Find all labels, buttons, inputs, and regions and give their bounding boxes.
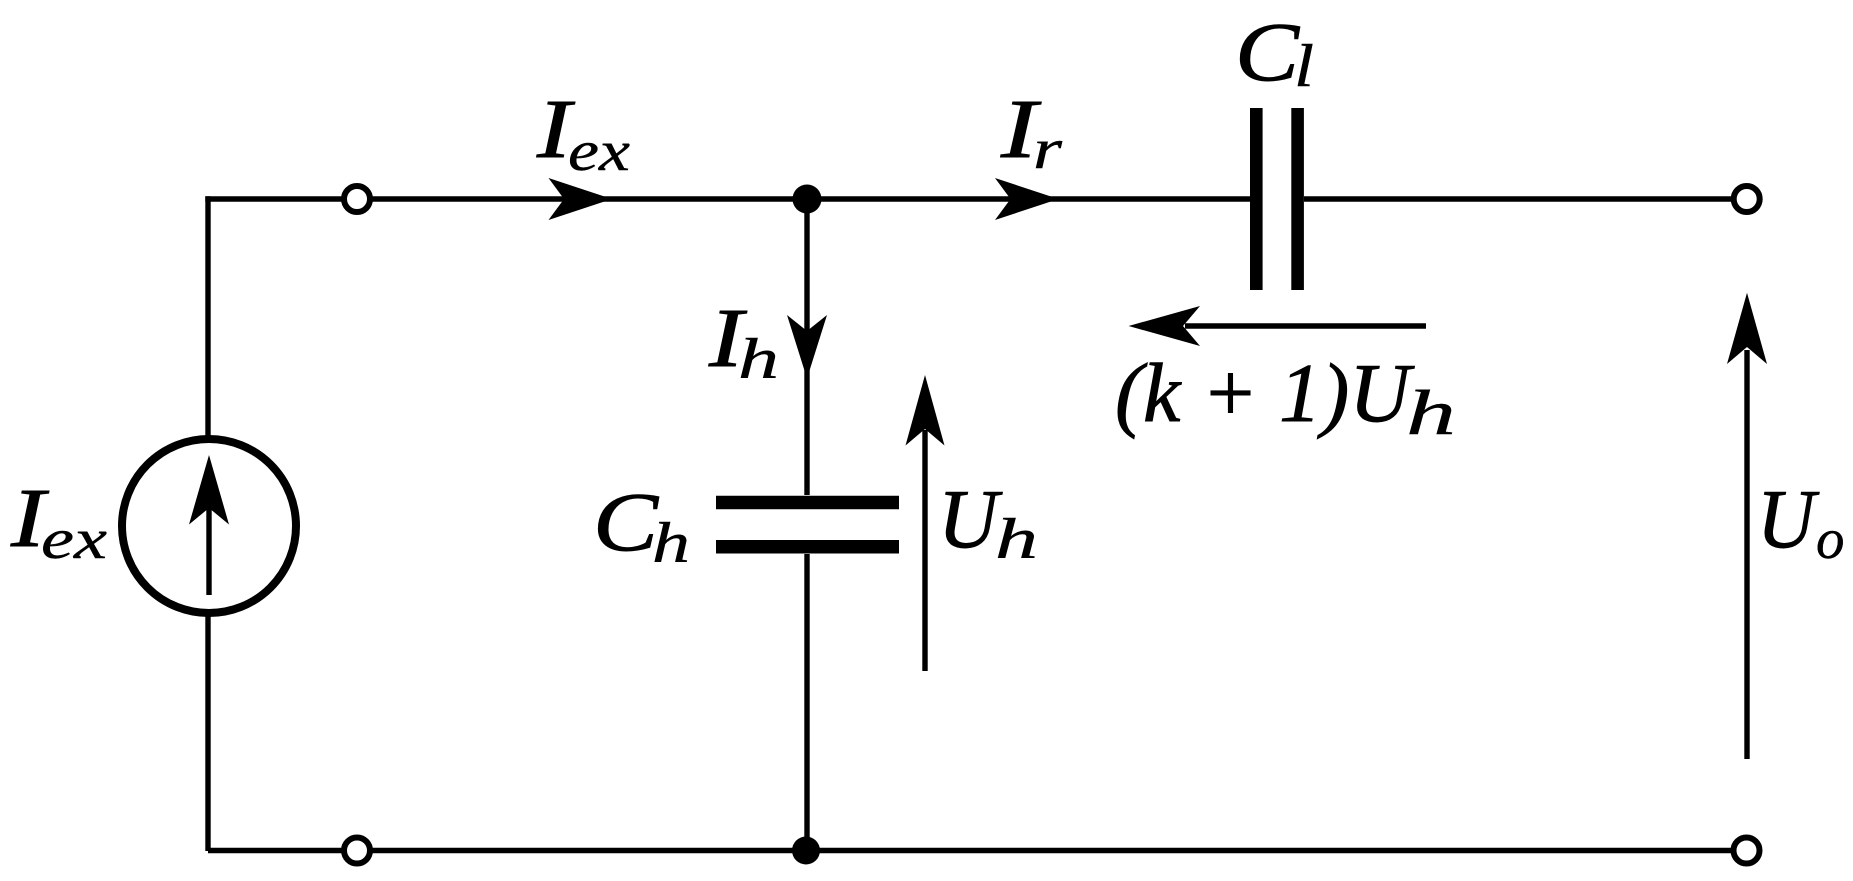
arrow U_h [922,430,927,671]
wire top: left corner to C_l left plate [205,196,1250,201]
svg-text:o: o [1816,508,1845,571]
arrow I_ex on top wire [549,178,613,220]
svg-text:U: U [938,473,1003,566]
wire left vertical [205,196,210,851]
svg-text:U: U [1757,473,1820,566]
svg-text:C: C [1235,6,1300,99]
wire top: C_l right plate to right terminal [1304,196,1740,201]
terminal bottom-left [344,838,370,864]
current source U1 circle [122,439,296,613]
arrow (k+1)U_h voltage [1185,323,1426,328]
terminal top-left [344,186,370,212]
svg-text:h: h [995,508,1038,571]
capacitor C_h plates [716,496,899,510]
terminal bottom-right [1734,838,1760,864]
node top junction [793,185,822,214]
current source arrow [206,505,211,595]
svg-text:h: h [738,328,779,391]
svg-text:h: h [1406,377,1456,448]
svg-text:r: r [1033,118,1063,181]
wire bottom [208,848,1736,853]
svg-text:C: C [593,476,659,569]
wire middle vertical upper (node to C_h top plate) [804,199,809,495]
arrow I_h on middle wire [787,315,827,379]
terminal top-right [1734,186,1760,212]
arrow I_r on top wire [995,178,1059,220]
arrow U_o [1744,350,1749,759]
node bottom junction [792,837,820,865]
svg-text:l: l [1294,33,1314,99]
svg-text:ex: ex [41,508,107,571]
svg-text:ex: ex [568,120,630,183]
svg-text:(k + 1)U: (k + 1)U [1115,347,1415,440]
capacitor C_l plates [1250,108,1263,290]
wire middle vertical lower (C_h bottom plate to bottom wire) [804,554,809,851]
svg-text:h: h [652,512,690,575]
